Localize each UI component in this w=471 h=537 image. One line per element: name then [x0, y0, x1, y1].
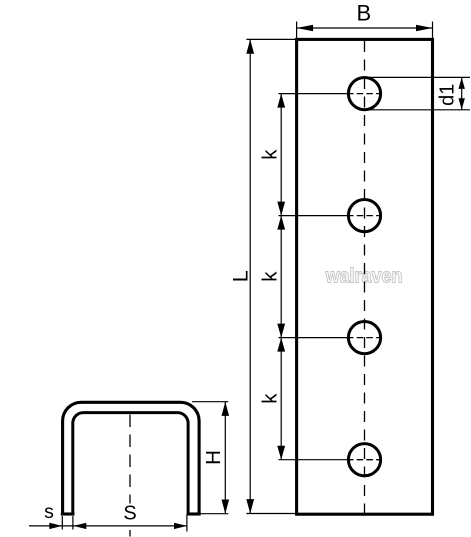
svg-text:walraven: walraven [325, 266, 403, 288]
svg-text:B: B [356, 1, 371, 26]
svg-text:d1: d1 [436, 84, 458, 106]
svg-text:S: S [123, 503, 136, 525]
svg-text:k: k [259, 271, 282, 282]
svg-text:H: H [202, 450, 225, 465]
svg-text:k: k [259, 393, 282, 404]
svg-text:k: k [259, 149, 282, 160]
svg-text:L: L [229, 270, 253, 282]
svg-text:s: s [44, 501, 54, 523]
